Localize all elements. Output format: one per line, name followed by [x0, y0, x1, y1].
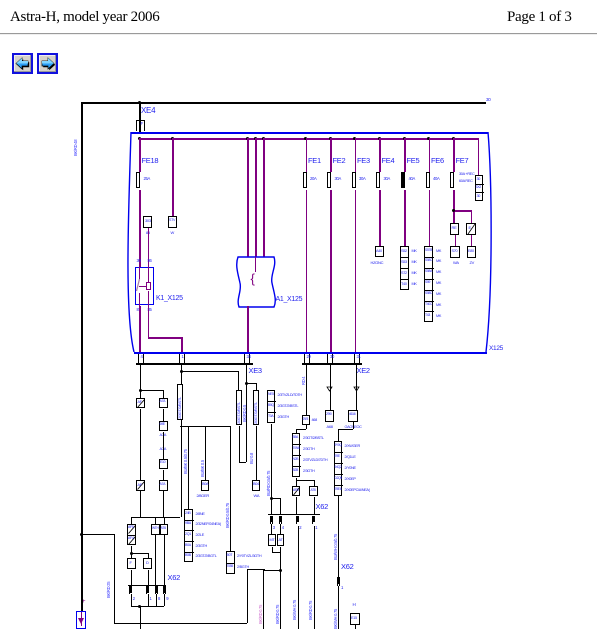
connector X62M pin 4 — [279, 516, 282, 524]
fuse FE7 — [450, 172, 454, 188]
fuse FE5 value — [409, 177, 416, 182]
junction on 30 bus — [353, 137, 356, 140]
wire A7A lower down — [163, 491, 164, 517]
connector X62M pin 3 — [270, 516, 273, 524]
junction merge — [138, 605, 141, 608]
module A1 internal symbol — [251, 272, 255, 286]
fuse FE7 label — [456, 157, 469, 165]
wire battery down — [81, 534, 83, 611]
label GAOSEOC — [345, 425, 362, 429]
wire drop to WTH — [155, 517, 156, 524]
wire XE2 pin31 down — [356, 365, 357, 411]
wire label BK/RD 0.5/0.75 — [226, 503, 231, 528]
relay K1 contact — [139, 267, 140, 279]
wire label BU/BK 0.5/0.75 — [184, 449, 189, 474]
wire FE7 branch — [453, 210, 471, 212]
module A1 name label — [276, 296, 303, 304]
MT/AT merge bracket — [272, 547, 273, 552]
distribution bar mid — [180, 426, 230, 427]
wire 30 bus inside X125 — [139, 138, 478, 140]
terminal box WTH — [151, 524, 160, 535]
contact box E with slash — [466, 223, 476, 235]
wire FE6 top — [429, 138, 431, 172]
wire FE3 top — [355, 138, 357, 172]
wire FE2 top — [330, 138, 332, 172]
battery G1 — [76, 611, 86, 629]
connector XE4 label — [141, 107, 155, 116]
pin label under STV — [171, 231, 174, 235]
relay K1 pin 30 label — [137, 259, 141, 264]
junction on 30 bus — [262, 137, 265, 140]
fuse FE5 label — [407, 157, 420, 165]
wire down left — [263, 570, 264, 629]
wire F to X62 — [131, 570, 132, 586]
wire RE to S70 — [455, 235, 456, 246]
terminal box E80 — [467, 246, 477, 258]
wire WTH to X62 — [155, 535, 156, 585]
fuse FE6 value — [433, 177, 440, 182]
wire label BK/RD 25 — [107, 582, 112, 598]
wire FE6 to stack — [429, 190, 431, 246]
wire merged down to edge — [140, 606, 141, 629]
wire label box rect1 — [177, 384, 183, 420]
label WA under B04 — [254, 494, 260, 498]
connector X62L pin 1 — [146, 586, 149, 594]
wire AF4 to F — [131, 546, 132, 558]
terminal box A40 — [375, 246, 384, 257]
connector XE3 pin 1 — [179, 354, 180, 364]
wire label BU 0.8 — [250, 453, 255, 464]
terminal box AT6 mid — [309, 486, 318, 496]
wire label BK/WH 0.75 — [334, 609, 339, 629]
wire A1 to X125 pin34 — [247, 306, 249, 353]
connector X62 mid label — [316, 503, 328, 511]
junction on 30 bus — [254, 137, 257, 140]
wire bottom bus — [114, 623, 247, 624]
fuse FE7 value line2 — [459, 179, 473, 183]
wire A1 feed 2 — [255, 138, 257, 257]
wire NE5 stack down — [271, 424, 272, 515]
terminal stack 24B group — [184, 509, 193, 562]
wire FE1 top — [306, 138, 308, 172]
wire into label-box 1 — [181, 371, 182, 384]
module box X125 top edge — [131, 132, 488, 134]
wire FE7 down — [453, 190, 455, 223]
wire XE3 pin4 down — [140, 365, 141, 391]
connector X62M pin 1 — [312, 516, 315, 524]
wire XE2 pin29 down — [306, 365, 307, 416]
wire label BK/RD 0.75 b — [276, 605, 281, 624]
switch box AF5 mid — [292, 486, 301, 496]
wire bus drop right end — [478, 138, 480, 175]
wire label box rect3 — [253, 390, 259, 425]
wire FE1 to XE2 pin29 — [306, 190, 308, 352]
label A7A mid2 — [160, 447, 167, 451]
junction on 30 bus — [378, 137, 381, 140]
wire AF lower down — [140, 491, 141, 517]
connector XE3 label — [249, 367, 262, 375]
fuse FE18 value 25A — [144, 177, 151, 182]
terminal stack 30/3X2/30 — [475, 175, 484, 201]
relay K1 pin 87 label — [137, 308, 141, 313]
module box X125 left curved edge — [122, 131, 138, 355]
connector XE3 pin 4 — [138, 354, 139, 364]
wire label RD 4 — [302, 377, 307, 385]
wire E10 link — [163, 432, 164, 459]
junction on 30 bus — [452, 137, 455, 140]
wire drop x188 — [188, 426, 189, 509]
terminal box 29I3 — [302, 415, 311, 425]
relay K1_X125 outline — [135, 267, 154, 305]
wire label BU/RD 0.5/0.75 — [267, 471, 272, 496]
wire label pin1 — [309, 601, 314, 620]
left cluster bus bar — [131, 517, 181, 518]
fuse FE5 — [401, 172, 405, 188]
junction pin4 split — [139, 389, 142, 392]
connector XE3 pin 34 — [244, 354, 245, 364]
terminal stack NE5 group — [267, 390, 275, 423]
terminal stack S52 group — [400, 246, 409, 290]
fuse FE18 — [136, 172, 140, 188]
label 2/8GER — [197, 494, 209, 498]
wire stack5 down — [338, 496, 339, 577]
wire E15 down — [355, 625, 356, 629]
wire A1 feed 1 — [247, 138, 249, 257]
wire 303 to relay coil — [148, 228, 150, 267]
terminal stack S57 group — [424, 246, 433, 322]
fuse FE6 — [426, 172, 430, 188]
wire STV branch — [172, 138, 174, 216]
junction on 30 bus — [246, 137, 249, 140]
connector X62L pin 8 — [155, 586, 158, 594]
connector X62L pin 9 — [163, 586, 166, 594]
junction on 30 bus — [138, 137, 141, 140]
label ZV — [470, 261, 475, 265]
wire rect3 down — [256, 426, 257, 480]
connector XE4 pin F — [136, 120, 137, 131]
terminal box B0A — [201, 480, 210, 491]
wire pin3 to MT — [271, 524, 272, 535]
junction on 30 bus — [329, 137, 332, 140]
wire label box rect2 — [236, 390, 242, 425]
terminal stack B5A group — [292, 433, 301, 477]
wire X62R down — [338, 586, 339, 629]
lamp E15 label H — [353, 603, 356, 608]
wire XE4 drop — [139, 102, 141, 133]
label HZGNC — [371, 261, 384, 265]
fuse FE2 value — [335, 177, 342, 182]
wire 29I3 jog to stack — [306, 425, 307, 429]
terminal box S70 — [450, 246, 460, 258]
switch box AF lower — [136, 480, 145, 491]
wire drop x205 — [205, 426, 206, 480]
module A1_X125 wavy box — [232, 255, 280, 309]
junction battery tap — [80, 533, 83, 536]
terminal box STV — [168, 216, 177, 228]
wire pin2 down to edge — [298, 526, 299, 629]
connector X62L pin 2 — [129, 586, 132, 594]
module box X125 bottom edge — [134, 352, 487, 354]
junction on 30 bus — [304, 137, 307, 140]
terminal stack 9Y0Q group — [334, 441, 343, 496]
wire XE3 pin34 down — [246, 365, 247, 384]
wire label BL/WH 0.5/0.75 — [334, 534, 339, 560]
switch stack AF5/AF4 — [127, 524, 136, 546]
contact box RE — [450, 223, 460, 235]
wire rect1 down to bar — [181, 420, 182, 517]
wire A7A to 69E — [163, 409, 164, 421]
wire battery feed left vertical — [81, 102, 83, 534]
terminal box 2910 — [325, 410, 334, 422]
wire stub up — [247, 569, 248, 623]
terminal box AT — [277, 534, 285, 546]
wire pin34 branch — [246, 383, 256, 384]
wire AT6mid to bar — [314, 497, 315, 515]
connector XE2 pin 31 — [354, 354, 355, 364]
fuse FE3 label — [357, 157, 370, 165]
connector X62 right label — [341, 563, 353, 571]
wire branch to A7A — [163, 390, 164, 398]
terminal box B04 — [252, 480, 261, 491]
fuse FE1 — [303, 172, 307, 188]
fuse FE4 value — [384, 177, 391, 182]
wire AT6 to X62 — [164, 535, 165, 585]
wire FE7 top — [453, 138, 455, 172]
fuse FE3 value — [359, 177, 366, 182]
wire FE18 to relay — [139, 190, 141, 267]
battery positive mark — [82, 599, 85, 606]
connector XE2 pin 29 — [304, 354, 305, 364]
terminal box 69E — [159, 421, 168, 432]
wire D to X62 — [148, 570, 149, 586]
fuse FE4 label — [382, 157, 395, 165]
label A68 — [327, 425, 333, 429]
wire A1 feed 3 — [263, 138, 265, 257]
connector X62 left bar — [128, 585, 166, 586]
junction on 30 bus — [171, 137, 174, 140]
junction pin34 — [245, 382, 248, 385]
wire drop x230 — [230, 426, 231, 551]
terminal box D — [143, 558, 152, 570]
wire 30-feed top horizontal — [81, 102, 486, 104]
connector X62R pin 1 — [337, 577, 340, 586]
wire FE3 to XE2 pin31 — [355, 190, 357, 352]
wire FE4 top — [379, 138, 381, 172]
module X125 name label — [489, 345, 503, 352]
fuse FE1 label — [308, 157, 321, 165]
pin label under 303 — [146, 231, 150, 235]
fuse FE2 — [327, 172, 331, 188]
connector X62 left label — [168, 574, 180, 582]
arrow pin30 — [326, 386, 333, 392]
module box X125 right curved edge — [481, 131, 497, 355]
nav button back — [12, 53, 33, 74]
wire E to E80 — [471, 235, 472, 246]
wire FE5 top — [404, 138, 406, 172]
terminal box MT — [268, 534, 276, 546]
wire pin4 to AT — [280, 524, 281, 535]
page number — [507, 9, 572, 26]
wire XE2 pin30 down — [330, 365, 331, 411]
junction on 30 bus — [403, 137, 406, 140]
nav button forward — [37, 53, 58, 74]
connector XE2 bar — [302, 363, 362, 365]
wire K1 pin85 jog — [148, 306, 150, 338]
wire label BK/RD 48 — [74, 140, 79, 156]
wire AF down — [140, 409, 141, 481]
wire to switch AF — [140, 390, 141, 398]
fuse FE3 — [352, 172, 356, 188]
wire AF5mid to bar — [296, 497, 297, 515]
wire merged down — [280, 552, 281, 571]
wire stack to AF5/AT6 — [296, 478, 297, 480]
wire down right — [280, 570, 281, 629]
terminal box 4616 — [348, 410, 358, 422]
junction bottom split — [279, 569, 282, 572]
wire rect2 U-turn — [239, 426, 240, 463]
wire pin1 branch right — [181, 371, 238, 372]
terminal box A7A — [159, 398, 168, 409]
label 468 — [312, 418, 317, 422]
header rule — [0, 33, 597, 34]
fuse FE1 value — [310, 177, 317, 182]
wire A1 internal stub — [255, 257, 256, 272]
fuse FE4 — [376, 172, 380, 188]
relay K1 pin 86 label — [148, 259, 152, 264]
wire XE3 pin1 down — [181, 365, 182, 372]
terminal box AT6 — [160, 524, 169, 535]
terminal pair B0T/T0B5 — [226, 551, 235, 574]
wire drop to AF5 stack — [131, 517, 132, 524]
fuse FE2 label — [333, 157, 346, 165]
terminal box 303 — [143, 216, 152, 228]
wire FE5 to stack — [404, 190, 406, 246]
wire label BU/BK 0.5 — [201, 460, 206, 477]
fuse FE6 label — [431, 157, 444, 165]
terminal box A7A lower — [159, 480, 168, 491]
arrow pin31 — [353, 386, 360, 392]
junction on 30 bus — [427, 137, 430, 140]
connector XE2 pin 30 — [327, 354, 328, 364]
wire FE4 to A40 — [379, 190, 381, 246]
relay K1 pin 85 label — [148, 308, 152, 313]
wire ground run — [81, 534, 114, 535]
page title — [10, 9, 159, 26]
wire pin1 down to edge — [314, 526, 315, 629]
wire label pink BK/RD 0.75 a — [259, 605, 264, 624]
wire label pin2 — [293, 600, 298, 620]
relay K1 name label — [156, 295, 183, 303]
junction AF4 branch — [130, 552, 133, 555]
wire FE18 top — [139, 138, 141, 172]
wire drop to AT6 — [164, 517, 165, 524]
wire pin1 to rect2 — [238, 371, 239, 390]
node 30 label — [486, 98, 490, 103]
label WA — [453, 261, 459, 265]
connector X62 mid bar — [268, 514, 320, 515]
connector X62M pin 2 — [296, 516, 299, 524]
wire label BK/RD 0.5 — [243, 405, 248, 422]
lamp E15 — [350, 613, 360, 625]
junction pin1 — [180, 370, 183, 373]
X62L merge bar — [131, 594, 132, 606]
fuse FE18 label — [142, 157, 159, 165]
wire FE2 to XE2 pin30 — [330, 190, 332, 352]
relay K1 coil — [139, 286, 146, 287]
wire K1 pin87 to X125 pin4 — [139, 306, 141, 353]
wire 4616 to stack5 — [353, 422, 354, 429]
terminal box E10 — [159, 459, 168, 470]
switch box AF — [136, 398, 145, 409]
junction X62 split — [270, 497, 273, 500]
connector XE3 bar — [136, 363, 253, 365]
fuse FE7 value line1 — [459, 172, 474, 176]
connector XE2 label — [357, 367, 370, 375]
terminal box F — [127, 558, 136, 570]
label A7A mid1 — [160, 433, 167, 437]
